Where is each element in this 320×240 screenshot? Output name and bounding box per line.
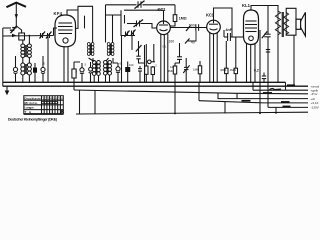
antenna A1 — [6, 3, 26, 33]
value labels texture — [42, 45, 167, 74]
svg-text:4MΩ: 4MΩ — [220, 68, 227, 72]
line L2 to T5 — [199, 101, 308, 103]
svg-text:160: 160 — [169, 40, 175, 44]
wire drop x260 — [259, 30, 261, 113]
resistor R5 — [168, 63, 177, 113]
wire osc tank — [121, 10, 135, 35]
wire anode V4 — [251, 6, 278, 12]
svg-text:+3,1F: +3,1F — [311, 101, 319, 105]
pin wires V1 — [63, 46, 65, 82]
drop T6 bottom — [275, 107, 277, 113]
wire color label rot — [270, 89, 282, 90]
svg-text:-4½v: -4½v — [311, 92, 318, 96]
wire stub osc — [131, 35, 133, 50]
antenna coil L2 lower winding — [21, 63, 32, 75]
ground arrow — [5, 86, 10, 95]
wire color label blau T5 — [242, 100, 251, 102]
svg-text:1MΩ: 1MΩ — [193, 68, 200, 72]
wire mid drop — [144, 45, 146, 82]
tuning capacitor VC2 — [125, 15, 158, 28]
wire coil middles — [22, 58, 24, 63]
trimmer C9 — [116, 63, 120, 82]
terminal line T4 — [218, 93, 308, 99]
wire osc row — [124, 9, 164, 11]
grid cap C15 — [196, 24, 199, 31]
trimmer arrow — [136, 45, 142, 52]
tube V4 — [244, 10, 259, 45]
core L2 — [24, 64, 26, 74]
svg-text:30: 30 — [42, 62, 46, 66]
chassis bus rail 1 — [3, 81, 286, 83]
svg-text:Langw.: Langw. — [25, 106, 35, 110]
capacitor C12 — [125, 62, 130, 83]
tone cap C18 — [262, 6, 271, 108]
wire grid feed — [3, 35, 54, 38]
wire trimmer junction drop — [47, 37, 49, 82]
trimmer C6 — [41, 56, 45, 82]
wire to tube V1 grid — [54, 28, 58, 36]
wire V2 to V3 — [170, 27, 206, 29]
wire L4 to bus — [93, 76, 95, 82]
resistor R6 — [193, 61, 202, 82]
wire L3-L4 — [89, 58, 94, 62]
resistor R8 — [230, 37, 238, 82]
resistor R4 — [170, 5, 177, 26]
wire L3 top — [92, 6, 94, 42]
wire coil tops — [22, 40, 24, 44]
svg-text:Deutscher Kleinempfänger (DKE): Deutscher Kleinempfänger (DKE) — [8, 118, 57, 122]
trimmer C7 — [80, 63, 84, 82]
wire anode V3 — [214, 8, 233, 37]
wire L5 right to trimmer — [113, 58, 118, 63]
svg-text:Drucktaste: Drucktaste — [25, 96, 42, 100]
bandfilter coil L5 — [107, 43, 114, 56]
wire node A to left rail — [3, 27, 11, 29]
resistor R2 — [145, 44, 148, 82]
trimmer C10 — [125, 31, 130, 38]
svg-text:4nF: 4nF — [226, 28, 233, 32]
tuning capacitor VC1 — [135, 1, 145, 9]
coupling cap C13 — [136, 41, 144, 63]
svg-text:4MΩ: 4MΩ — [168, 69, 175, 73]
decoupling caps C19 — [262, 50, 270, 83]
capacitor C14 — [138, 66, 142, 82]
wire anode top V1 — [67, 10, 78, 15]
wire VC feed — [106, 4, 137, 6]
heater line T3 — [74, 90, 308, 94]
wire secondary bottom — [286, 29, 296, 86]
trimmer C2 — [40, 32, 46, 39]
trimmer C20 — [183, 58, 189, 82]
core T1 — [281, 12, 283, 37]
wire L5-L6 — [107, 58, 109, 61]
svg-text:-130V: -130V — [311, 106, 320, 110]
wire anode V2 — [163, 10, 165, 21]
wire top loop B — [105, 5, 107, 43]
core L6 — [106, 62, 108, 74]
resistor R7 — [220, 41, 228, 82]
step T3-T4 — [236, 93, 238, 98]
svg-text:Mittelw.: Mittelw. — [25, 101, 39, 105]
drop L2 bottom — [224, 102, 226, 114]
arrow on grid wire — [12, 34, 17, 37]
tube V3 — [207, 20, 221, 34]
riser L2 — [198, 82, 200, 100]
coupling cap C17 — [224, 30, 244, 41]
core L4 — [95, 63, 97, 75]
terminal labels — [311, 84, 320, 109]
bandfilter coil L3 — [87, 43, 93, 56]
wire inner loop B — [106, 15, 122, 43]
svg-text:1MΩ: 1MΩ — [230, 68, 237, 72]
coil L4 lower — [92, 61, 100, 76]
antenna coil L1 upper winding a — [21, 44, 32, 58]
svg-text:0,2: 0,2 — [254, 68, 259, 72]
antenna trimmer C1 — [10, 26, 17, 34]
wire VC1 to grid cap — [143, 4, 176, 6]
trimmer arrow 3 — [185, 31, 196, 45]
transformer T1 secondary — [284, 13, 289, 35]
resistor R1 — [72, 62, 80, 90]
stub — [84, 16, 86, 29]
svg-text:KF4: KF4 — [54, 11, 63, 16]
wire color label blau T3 — [263, 92, 272, 94]
transformer T1 primary — [275, 11, 280, 35]
svg-text:50: 50 — [98, 63, 102, 67]
svg-text:40: 40 — [191, 41, 195, 45]
riser b — [94, 90, 96, 114]
wire anode V1 — [76, 6, 94, 28]
terminal line T2 — [253, 89, 308, 91]
wire L6 to bus — [105, 75, 107, 82]
pin wires V2 — [160, 34, 162, 82]
svg-text:0,1: 0,1 — [163, 45, 167, 49]
core L3 — [89, 44, 91, 56]
wire color label gelb — [287, 84, 295, 86]
core L5 — [109, 44, 111, 56]
wire coil bottoms to bus — [22, 75, 24, 83]
svg-text:100: 100 — [129, 63, 134, 67]
svg-text:KL1: KL1 — [242, 3, 251, 8]
bus rail 2 — [3, 85, 308, 87]
trimmer arrow 2 — [186, 26, 191, 32]
tube V2 — [157, 21, 171, 35]
trimmer C8 — [89, 62, 93, 82]
riser a — [79, 90, 81, 114]
svg-text:KC1: KC1 — [158, 7, 167, 12]
trimmer C3 — [46, 32, 52, 39]
wire drop x253 — [252, 82, 254, 90]
bottom rail — [76, 112, 308, 114]
core L1 — [24, 45, 26, 57]
switch table — [24, 96, 64, 115]
wire primary bottom — [277, 35, 279, 83]
series cap C16 — [175, 43, 182, 63]
terminal line T6 — [268, 106, 308, 108]
wire color label sw T6 — [283, 106, 291, 108]
wire secondary top — [286, 8, 296, 19]
coil L6 lower — [104, 61, 112, 76]
wire color label rot T5 — [281, 101, 290, 103]
wire left rail — [2, 28, 4, 86]
svg-text:1MΩ: 1MΩ — [179, 16, 187, 20]
socket box — [19, 33, 25, 40]
wire bus1 end drop — [285, 82, 287, 90]
wire osc tank drop — [121, 36, 123, 82]
capacitor C5 — [33, 63, 37, 82]
trimmer C4 — [13, 56, 17, 82]
pin wires V3 — [209, 33, 211, 82]
pin wires V4 — [246, 43, 248, 82]
speaker LS — [296, 12, 305, 36]
trimmer C11 — [131, 30, 136, 37]
resistor R3 — [148, 44, 156, 82]
tube V1 — [55, 15, 76, 47]
